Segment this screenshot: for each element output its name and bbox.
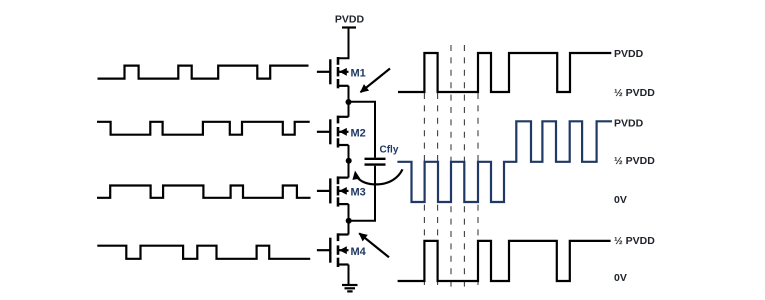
svg-text:M2: M2	[351, 127, 366, 139]
wire M1 source to node A	[348, 86, 350, 117]
svg-text:PVDD: PVDD	[614, 118, 644, 130]
svg-text:PVDD: PVDD	[614, 48, 644, 60]
ground	[342, 285, 358, 291]
node A junction dot	[346, 99, 352, 105]
svg-text:M1: M1	[351, 68, 366, 80]
gate waveform of M4 (left row 4)	[97, 246, 310, 259]
svg-text:0V: 0V	[614, 272, 627, 284]
output waveform middle (OUT, blue)	[397, 121, 612, 202]
svg-text:½ PVDD: ½ PVDD	[614, 87, 655, 99]
gate waveform of M3 (left row 3)	[97, 186, 311, 198]
dashed timing line t5	[477, 93, 479, 287]
PVDD terminal bar	[342, 26, 356, 28]
svg-text:PVDD: PVDD	[335, 14, 365, 26]
wire PVDD to M1 drain	[339, 28, 349, 59]
gate waveform of M2 (left row 2)	[97, 122, 310, 135]
gate waveform of M1 (left row 1)	[98, 66, 309, 79]
wire M3 drain stub	[339, 177, 349, 179]
capacitor Cfly	[365, 159, 386, 165]
curved arrow to node OUT	[357, 169, 403, 184]
node B junction dot	[346, 218, 352, 224]
transistor M3	[317, 176, 349, 206]
transistor M2	[317, 116, 349, 148]
wire node A to Cfly top	[349, 102, 376, 158]
dashed timing line t1	[423, 93, 425, 287]
wire M3 source to node B	[348, 204, 350, 234]
arrow to node A	[361, 69, 391, 93]
dashed timing line t2	[437, 93, 439, 287]
wire Cfly bottom to node B	[349, 166, 375, 221]
wire M4 source to ground	[348, 265, 350, 285]
svg-text:M4: M4	[351, 246, 367, 258]
svg-text:½ PVDD: ½ PVDD	[614, 235, 655, 247]
wire M4 drain stub	[339, 233, 349, 235]
output waveform top (switch node A)	[398, 53, 611, 92]
svg-text:0V: 0V	[614, 194, 627, 206]
arrow to node B	[359, 233, 389, 257]
wire M2 source to node OUT	[348, 145, 350, 178]
svg-text:M3: M3	[351, 186, 366, 198]
node OUT junction dot	[346, 158, 352, 164]
output waveform bottom (switch node B)	[398, 241, 611, 281]
svg-text:Cfly: Cfly	[380, 144, 399, 155]
svg-text:½ PVDD: ½ PVDD	[614, 155, 655, 167]
transistor M1	[317, 57, 349, 88]
wire M2 drain stub	[339, 116, 349, 118]
transistor M4	[317, 233, 349, 267]
dashed timing line t4	[463, 45, 465, 287]
dashed timing line t3	[450, 45, 452, 287]
